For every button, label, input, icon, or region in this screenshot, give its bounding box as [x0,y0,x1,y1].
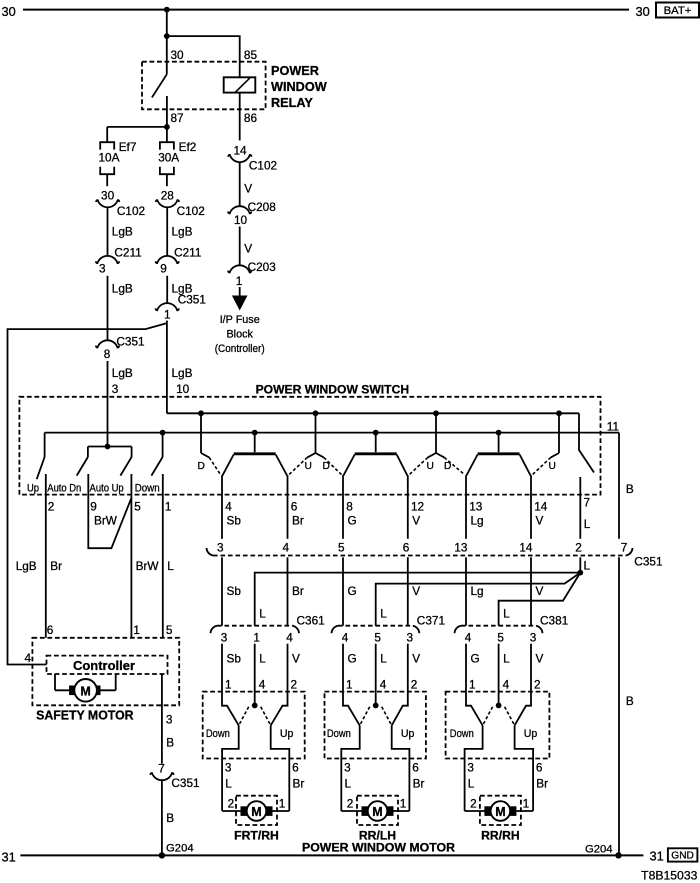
svg-text:5: 5 [374,631,381,645]
svg-text:30: 30 [2,4,16,19]
wire switch pin 8 [342,475,344,539]
svg-text:Sb: Sb [227,514,242,528]
svg-text:4: 4 [225,499,232,513]
svg-text:FRT/RH: FRT/RH [234,829,279,843]
connector C371 row (dashed) [332,613,446,633]
svg-text:6: 6 [47,623,54,637]
svg-text:Down: Down [327,728,351,740]
wire C102-30 down [107,207,109,256]
svg-text:3: 3 [407,631,414,645]
svg-text:U: U [549,461,556,472]
wire switch pin 13 [465,475,467,539]
connector C208 pin 10 [228,200,276,227]
svg-text:L: L [345,777,352,791]
motor switch box FRT/RH (dashed) [203,692,305,759]
svg-text:V: V [412,584,420,598]
svg-text:4: 4 [282,541,289,555]
fuse Ef7 10A [99,140,137,174]
svg-text:8: 8 [346,499,353,513]
connector C102 pin 28 [156,189,205,218]
power window switch box (dashed) [19,397,600,495]
wire G to motor switch [342,644,344,692]
switch Up contact [271,692,288,726]
svg-text:V: V [536,514,544,528]
connector C351 pin 7 [150,761,199,790]
motor RR/LH (dashed box) [357,796,398,825]
svg-text:M: M [495,805,505,819]
motor FRT/RH wires [222,810,289,812]
junction driver feed [105,444,111,450]
relay switch contact stub to pin 87 [166,96,168,127]
svg-text:Up: Up [524,728,538,740]
svg-text:POWER WINDOW MOTOR: POWER WINDOW MOTOR [302,841,455,855]
wire L branch to C361-1 [255,573,581,626]
svg-text:GND: GND [671,851,694,862]
svg-text:RELAY: RELAY [271,96,313,110]
wire switch pin 4 [221,475,223,539]
svg-text:2: 2 [470,797,477,811]
wire relay 86 down [239,93,241,141]
safety motor wires [55,674,116,690]
wire switch out 6 [515,725,534,811]
wire driver small bus [88,446,132,448]
svg-text:9: 9 [90,499,97,513]
ground G204 left [159,842,194,858]
svg-text:C381: C381 [540,613,568,627]
junction on bus 30 [164,7,170,13]
svg-text:4: 4 [342,631,349,645]
svg-text:G204: G204 [585,843,613,855]
svg-text:Br: Br [50,559,62,573]
svg-text:3: 3 [467,761,474,775]
connector C381 row (dashed) [455,613,569,633]
connector C211 pin 3 [96,245,142,275]
wire B to ground right side [618,433,620,856]
svg-text:4: 4 [465,631,472,645]
lever dashed to Up [505,707,515,726]
junction at 87 [164,124,170,130]
arrow to I/P fuse block [232,296,248,311]
svg-text:12: 12 [411,499,424,513]
wire to relay pin 85 [167,36,240,77]
wire Ef7 down [106,174,108,186]
svg-text:L: L [259,607,266,621]
junction lower bus x162 [160,430,166,436]
svg-text:10A: 10A [99,151,120,165]
wire L branch to C381-5 [499,573,581,626]
svg-text:U: U [305,461,312,472]
svg-text:BAT+: BAT+ [664,5,692,17]
svg-text:2: 2 [291,678,298,692]
wire pin 5 down to controller 1 [130,474,132,638]
svg-text:LgB: LgB [172,366,193,380]
svg-text:B: B [626,694,634,708]
svg-text:3: 3 [225,761,232,775]
relay coil [224,77,256,92]
svg-text:C102: C102 [249,159,277,173]
wire Lg below C351 [465,557,467,625]
wire L to motor switch [254,644,256,706]
svg-text:3: 3 [344,761,351,775]
connector C351 row (dashed) [207,548,663,569]
junction lower bus x375 [373,430,379,436]
svg-text:30: 30 [171,48,185,62]
lever dashed to Up [261,707,271,726]
wire bus 30 (BAT+) [23,9,629,11]
svg-text:RR/RH: RR/RH [481,829,520,843]
svg-text:C102: C102 [177,204,205,218]
svg-text:4: 4 [380,678,387,692]
wire C102-14 down [239,162,241,207]
svg-text:BrW: BrW [136,559,160,573]
svg-text:L: L [468,777,475,791]
svg-text:G: G [348,652,357,666]
svg-text:Br: Br [536,777,548,791]
svg-text:1: 1 [523,797,530,811]
wire controller 3 down [161,674,163,764]
lever D/U dashed to x531 [533,457,551,474]
svg-text:3: 3 [166,712,173,726]
connector C102 pin 14 [228,144,277,173]
svg-text:B: B [626,482,634,496]
wire switch out 6 [271,725,290,811]
switch Down contact [343,692,360,726]
wire branch to left edge [8,323,167,664]
svg-text:G: G [348,514,357,528]
svg-text:G204: G204 [166,842,194,854]
svg-text:3: 3 [99,262,106,276]
switch feeder x315.5 [315,413,317,453]
svg-text:C351: C351 [178,292,206,306]
svg-text:(Controller): (Controller) [215,343,265,355]
svg-text:C361: C361 [297,613,325,627]
svg-text:6: 6 [291,499,298,513]
wire lower bus [45,432,619,434]
svg-text:Down: Down [450,728,474,740]
svg-text:31: 31 [2,850,16,865]
svg-text:Up: Up [280,728,294,740]
ground G204 right [585,843,622,858]
junction upper bus x201 [198,410,204,416]
lever dashed to Down [360,707,370,726]
svg-text:7: 7 [621,541,628,555]
fuse Ef2 30A [158,127,196,174]
controller box (dashed) [47,656,168,674]
wire C351-7 to ground [161,780,163,856]
svg-text:13: 13 [454,541,468,555]
motor RR/LH wires [341,810,409,812]
junction upper bus x559 [556,410,562,416]
svg-text:B: B [166,735,174,749]
svg-text:1: 1 [253,631,260,645]
svg-text:Br: Br [292,584,304,598]
feeder stub right [436,453,444,457]
wire C102-28 down [166,207,168,256]
wire switch pin 12 [407,475,409,539]
svg-text:Lg: Lg [471,514,484,528]
svg-text:C351: C351 [171,776,199,790]
svg-text:1: 1 [236,274,243,288]
wire 87 to fuses [107,126,167,128]
motor switch box RR/RH (dashed) [446,692,550,759]
svg-text:Down: Down [135,483,160,495]
connector C203 pin 1 [228,260,276,288]
svg-text:C351: C351 [634,555,662,569]
svg-text:3: 3 [217,541,224,555]
wire stub to arrow [239,287,241,296]
motor RR/RH wires [465,810,533,812]
switch Down contact [466,692,483,726]
node L junction [577,557,590,575]
junction relay feed [164,33,170,39]
switch feeder x436 [435,413,437,453]
svg-text:4: 4 [286,631,293,645]
ground GND box [668,848,698,861]
svg-text:L: L [584,517,591,531]
svg-text:14: 14 [519,541,533,555]
connector C211 pin 9 [156,245,202,275]
lever D/U dashed to x343 [324,457,342,474]
wire V to motor switch [407,644,409,692]
motor FRT/RH symbol M [247,801,267,821]
lever D/U dashed to x222 [209,457,220,474]
svg-text:2: 2 [534,678,541,692]
svg-text:Ef2: Ef2 [179,140,197,154]
svg-text:L: L [167,559,174,573]
svg-text:L: L [259,652,266,666]
svg-text:1: 1 [346,678,353,692]
junction motor switch common [252,703,258,709]
lever dashed to Down [483,707,493,726]
svg-text:2: 2 [575,541,582,555]
svg-text:C102: C102 [117,204,145,218]
svg-text:POWER: POWER [271,64,319,78]
switch Auto Up lever [120,447,131,476]
lever D/U dashed to x407.8 [409,457,428,474]
wire G to motor switch [465,644,467,692]
svg-text:M: M [372,805,382,819]
svg-text:G: G [471,652,480,666]
switch feeder x559 [558,413,560,453]
svg-text:Sb: Sb [227,584,242,598]
svg-text:L: L [380,652,387,666]
svg-text:Br: Br [293,777,305,791]
svg-text:LgB: LgB [112,366,133,380]
junction upper bus x315 [313,410,319,416]
svg-text:10: 10 [176,382,190,396]
wire V to motor switch [530,644,532,692]
wire pin 2 down to controller 6 [45,474,47,638]
svg-text:C211: C211 [174,245,201,259]
svg-text:14: 14 [534,499,548,513]
wire Sb to motor switch [221,644,223,692]
wire Ef2 down [166,174,168,186]
wire C351-1 down to switch pin 10 [166,321,168,414]
svg-text:Auto Up: Auto Up [90,483,124,495]
svg-text:28: 28 [161,189,175,203]
motor FRT/RH (dashed box) [236,796,277,825]
motor RR/RH (dashed box) [480,796,521,825]
svg-text:30: 30 [101,189,115,203]
wire switch pin 7 [579,477,581,539]
lever D/U dashed to x287.5 [289,457,307,474]
motor RR/LH terminals [362,807,393,816]
svg-text:G: G [348,584,357,598]
svg-text:Up: Up [401,728,415,740]
svg-text:4: 4 [259,678,266,692]
junction lower bus x254 [252,430,258,436]
svg-text:1: 1 [469,678,476,692]
svg-text:30: 30 [636,4,650,19]
wire L to motor switch [375,644,377,706]
motor switch box RR/LH (dashed) [325,692,426,759]
svg-text:D: D [323,461,330,472]
wire L to motor switch [498,644,500,706]
svg-text:Block: Block [226,329,253,341]
svg-text:V: V [536,652,544,666]
wire to fuse Ef7 [106,127,108,142]
switch rocker center x375.7 [343,433,407,476]
label I/P Fuse Block (Controller) [215,314,265,355]
svg-text:C351: C351 [116,334,144,348]
svg-text:14: 14 [233,144,247,158]
safety motor box (dashed) [32,638,179,706]
feeder stub left [428,453,436,457]
svg-text:Br: Br [292,514,304,528]
svg-text:1: 1 [400,797,407,811]
wire switch out 3 [341,725,359,811]
junction upper bus x436 [433,410,439,416]
wire bus 31 (ground) [20,854,643,856]
svg-text:3: 3 [221,631,228,645]
svg-text:LgB: LgB [16,559,37,573]
svg-text:8: 8 [104,347,111,361]
feeder stub left [307,453,315,457]
svg-text:V: V [412,652,420,666]
svg-text:Ef7: Ef7 [119,140,137,154]
wire upper bus LgB [167,412,579,414]
svg-text:2: 2 [48,499,55,513]
svg-text:BrW: BrW [94,514,118,528]
svg-text:L: L [380,607,387,621]
svg-text:Lg: Lg [471,584,484,598]
connector C102 pin 30 [96,189,145,218]
svg-text:85: 85 [244,48,258,62]
svg-text:1: 1 [225,678,232,692]
svg-text:1: 1 [165,499,172,513]
svg-text:M: M [80,684,90,698]
wire pin 9 jog [88,474,131,548]
svg-text:6: 6 [536,761,543,775]
relay K box (dashed) [142,62,266,110]
svg-text:6: 6 [412,761,419,775]
safety motor terminals [70,686,100,695]
safety motor symbol M [74,679,97,702]
svg-text:86: 86 [244,111,258,125]
motor RR/LH symbol M [368,801,388,821]
junction lower bus x498 [496,430,502,436]
svg-text:D: D [198,461,205,472]
switch rocker center x254.7 [222,433,287,476]
svg-text:LgB: LgB [112,224,133,238]
svg-text:30A: 30A [158,151,179,165]
wire to relay pin 30 [166,36,168,74]
svg-text:5: 5 [497,631,504,645]
wire Br below C351 [287,557,289,625]
svg-text:Auto Dn: Auto Dn [47,483,81,495]
svg-text:L: L [584,559,591,573]
svg-text:7: 7 [158,761,165,775]
svg-text:L: L [225,777,232,791]
wire V below C351 [530,557,532,625]
svg-text:B: B [166,811,174,825]
svg-text:4: 4 [25,651,32,665]
feeder stub left [551,453,559,457]
wire switch out 3 [465,725,483,811]
connector C351 pin 8 [96,334,145,361]
feeder stub right [316,453,324,457]
switch Up contact [515,692,531,726]
wire V below C351 [407,557,409,625]
battery BAT+ box [656,3,699,18]
svg-text:4: 4 [503,678,510,692]
svg-text:5: 5 [338,541,345,555]
svg-text:WINDOW: WINDOW [271,80,327,94]
svg-text:U: U [427,461,434,472]
svg-text:POWER WINDOW SWITCH: POWER WINDOW SWITCH [256,383,410,397]
svg-text:5: 5 [134,499,141,513]
wire V to motor switch [287,644,289,692]
lever D/U dashed to x466 [444,457,464,474]
svg-text:C211: C211 [114,245,141,259]
svg-text:11: 11 [607,420,619,434]
svg-text:V: V [412,514,420,528]
svg-text:87: 87 [171,111,184,125]
label POWER WINDOW RELAY [271,64,327,110]
svg-text:6: 6 [292,761,299,775]
svg-text:1: 1 [164,307,171,321]
wire L branch to C371-5 [376,573,581,626]
svg-text:2: 2 [347,797,354,811]
svg-text:1: 1 [279,797,286,811]
wire C351-8 down into switch [107,361,109,447]
svg-text:LgB: LgB [172,224,193,238]
svg-text:2: 2 [228,797,235,811]
svg-text:M: M [251,805,261,819]
motor RR/RH terminals [485,807,516,816]
lever dashed to Down [239,707,249,726]
svg-text:10: 10 [234,213,248,227]
switch Down contact [222,692,239,726]
svg-text:1: 1 [133,623,140,637]
svg-text:V: V [244,182,252,196]
wire switch out 3 [222,725,239,811]
switch Auto Dn lever [77,447,88,476]
feeder stub right [201,453,209,457]
svg-text:2: 2 [411,678,418,692]
motor RR/RH symbol M [491,801,511,821]
switch Up lever [37,433,45,480]
svg-text:6: 6 [403,541,410,555]
svg-text:13: 13 [469,499,483,513]
relay switch lever [152,74,167,97]
wire switch pin 6 [287,475,289,539]
switch feeder x201 [200,413,202,453]
svg-text:7: 7 [584,495,591,509]
svg-text:9: 9 [160,262,167,276]
svg-text:I/P Fuse: I/P Fuse [220,314,260,326]
svg-text:LgB: LgB [112,282,133,296]
